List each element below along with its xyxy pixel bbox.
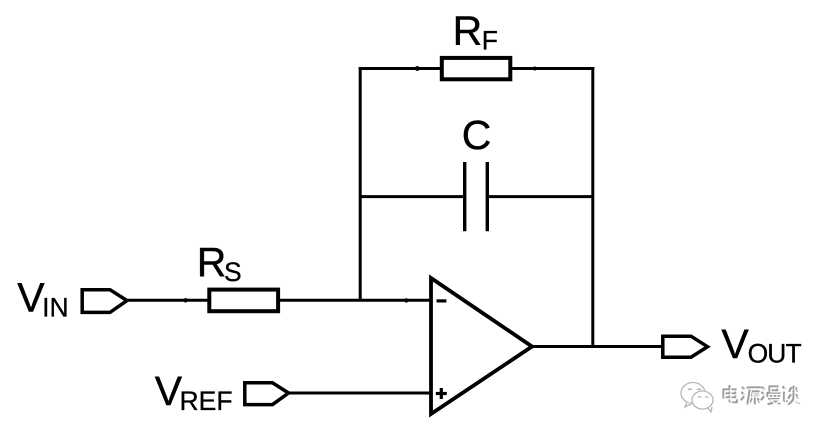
resistor RS xyxy=(209,290,278,312)
op-amp inverting pin minus sign xyxy=(437,299,447,302)
junction dot on top feedback wire left xyxy=(415,66,420,71)
resistor RF xyxy=(442,58,511,79)
watermark wechat icon xyxy=(681,383,713,413)
wire left vertical feedback branch xyxy=(359,67,362,300)
svg-text:C: C xyxy=(462,112,492,158)
junction dot on inverting input wire xyxy=(404,298,408,302)
svg-text:F: F xyxy=(482,25,498,55)
svg-text:V: V xyxy=(155,368,183,414)
wire right vertical feedback branch xyxy=(591,67,594,347)
wire capacitor right lead xyxy=(488,195,593,198)
svg-text:REF: REF xyxy=(180,386,233,416)
capacitor C plates xyxy=(463,162,466,231)
svg-text:S: S xyxy=(224,257,242,287)
input port VIN xyxy=(82,290,127,313)
op-amp non-inverting pin plus sign xyxy=(436,392,447,395)
svg-text:OUT: OUT xyxy=(748,339,802,369)
wire VIN to RS xyxy=(127,299,210,302)
junction dot on top feedback wire right xyxy=(533,67,537,71)
svg-text:R: R xyxy=(197,239,227,285)
svg-text:V: V xyxy=(17,274,45,320)
wire top feedback right segment xyxy=(510,67,594,70)
svg-text:V: V xyxy=(721,321,749,367)
junction dot on VIN wire xyxy=(183,298,187,302)
svg-text:IN: IN xyxy=(42,293,69,323)
wire RS to op-amp inverting input xyxy=(278,299,431,302)
op-amp U1 xyxy=(431,278,532,414)
output port VOUT xyxy=(663,336,708,357)
wire op-amp output xyxy=(533,345,663,348)
wire top feedback left segment xyxy=(359,67,443,70)
wire capacitor left lead xyxy=(360,195,464,198)
input port VREF xyxy=(245,383,289,405)
wire VREF to op-amp non-inverting input xyxy=(289,392,432,395)
svg-text:R: R xyxy=(453,7,483,53)
